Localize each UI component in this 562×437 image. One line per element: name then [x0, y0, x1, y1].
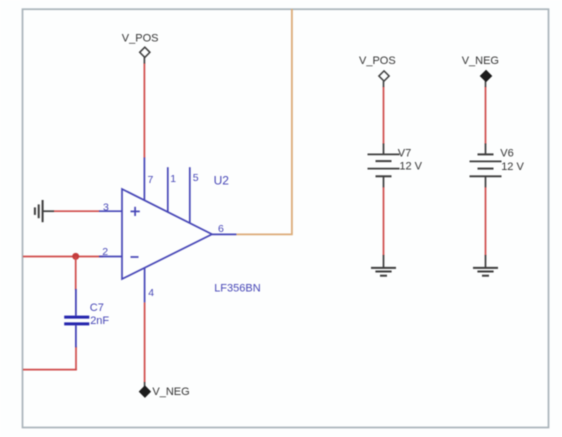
op-amp pin 2 lead — [99, 256, 122, 258]
power symbol V_POS (top, at op-amp pin 7) — [140, 47, 150, 63]
capacitor C7 — [64, 289, 89, 347]
wire: capacitor C7 bottom lead down to corner — [75, 347, 77, 371]
op-amp inverting input marker (-) — [131, 256, 139, 258]
power symbol V_NEG (bottom, at op-amp pin 4) — [139, 382, 150, 397]
wire: op-amp pin 4 down to V_NEG symbol — [144, 302, 146, 382]
svg-text:2nF: 2nF — [90, 315, 109, 327]
wire: V_POS symbol down to op-amp pin 7 — [143, 63, 145, 158]
svg-text:C7: C7 — [90, 302, 104, 314]
op-amp pin 4 lead — [144, 268, 146, 302]
ground (below battery V6) — [473, 255, 498, 276]
power symbol V_NEG (above battery V6) — [480, 70, 491, 87]
ground (below battery V7) — [371, 255, 396, 276]
battery V7 (12 V source) — [368, 144, 400, 188]
wire: V_NEG symbol down to battery V6 — [485, 87, 487, 145]
op-amp U2 triangle body — [122, 189, 212, 279]
wire: battery V6 down to ground — [485, 187, 487, 256]
node: junction of pin-2 wire and C7 branch — [72, 253, 79, 260]
svg-text:V7: V7 — [398, 148, 411, 160]
op-amp pin 3 lead — [99, 210, 122, 212]
wire: left ground to op-amp pin 3 — [54, 210, 101, 212]
wire: junction down to capacitor C7 top lead — [75, 256, 77, 290]
svg-text:V_NEG: V_NEG — [462, 55, 499, 67]
wire: V_POS symbol down to battery V7 — [383, 87, 385, 145]
svg-text:5: 5 — [193, 172, 199, 184]
svg-text:7: 7 — [148, 174, 154, 186]
svg-text:4: 4 — [148, 287, 154, 299]
battery V6 (12 V source, inverted) — [470, 144, 502, 188]
wire: op-amp output pin 6 right and up to sheet top (orange net) — [236, 9, 292, 234]
wire: battery V7 down to ground — [383, 187, 385, 256]
svg-text:1: 1 — [170, 173, 176, 185]
svg-text:V_POS: V_POS — [359, 55, 396, 67]
wire: frame left edge to op-amp pin 2 — [23, 256, 103, 258]
svg-text:LF356BN: LF356BN — [214, 283, 261, 295]
svg-text:2: 2 — [102, 246, 108, 258]
op-amp pin 1 lead — [167, 167, 169, 212]
op-amp pin 6 output lead — [212, 233, 236, 235]
svg-text:3: 3 — [103, 201, 109, 213]
svg-text:U2: U2 — [214, 174, 230, 188]
power symbol V_POS (above battery V7) — [379, 71, 389, 87]
svg-text:12 V: 12 V — [501, 161, 524, 173]
svg-text:6: 6 — [218, 223, 224, 235]
wire: bottom horizontal run to frame left edge — [23, 369, 77, 371]
svg-text:V_NEG: V_NEG — [152, 386, 189, 398]
svg-text:12 V: 12 V — [399, 160, 422, 172]
op-amp pin 5 lead — [189, 167, 191, 223]
op-amp pin 7 lead — [143, 158, 145, 201]
ground (left, at op-amp pin 3) — [35, 200, 54, 222]
svg-text:V_POS: V_POS — [122, 33, 159, 45]
svg-text:V6: V6 — [500, 148, 513, 160]
op-amp non-inverting input marker (+) — [131, 207, 140, 216]
